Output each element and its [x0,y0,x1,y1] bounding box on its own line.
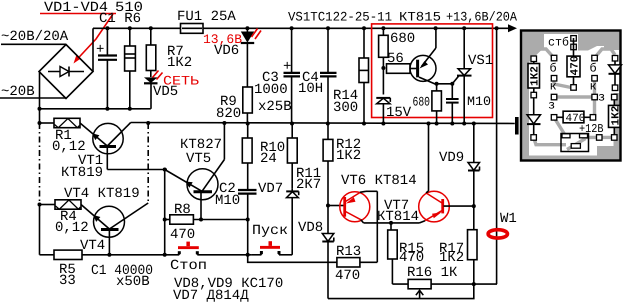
transistor VT1 [80,123,131,170]
wire Pusk node to R13 [248,255,337,262]
svg-text:470: 470 [570,56,582,76]
svg-text:33: 33 [59,273,76,289]
start button (Pusk) [252,241,292,255]
zener VD9 [468,124,480,230]
svg-text:к: к [590,80,597,94]
svg-text:680: 680 [413,95,431,110]
VT6 emitter wire down to R13 [376,191,378,262]
resistor R14 [359,28,369,123]
node dots top rail [105,26,498,30]
svg-text:х50В: х50В [116,274,150,290]
zener VD7 [286,188,299,255]
svg-text:к: к [550,80,557,94]
svg-text:1К2: 1К2 [336,148,361,164]
svg-text:з: з [598,91,605,105]
bottom sense wire [328,284,474,299]
capacitor C4 [320,28,337,123]
svg-text:2К7: 2К7 [296,177,321,193]
resistor R9 [243,87,253,124]
svg-text:КТ814: КТ814 [377,209,419,225]
svg-text:стб: стб [548,36,569,50]
label C2 M10 [215,181,240,209]
minus output rail (y123.5) [131,123,515,124]
svg-text:КТ819: КТ819 [61,165,103,181]
label R8 470 [170,202,195,243]
top rail right segment with output arrow [203,24,517,32]
resistor R7 [146,28,156,77]
svg-text:M10: M10 [467,94,491,109]
transistor VT4 [81,203,148,255]
resistor 56 [387,64,411,74]
svg-text:КТ815: КТ815 [399,10,441,25]
zener 15V [376,98,390,124]
label VT1 KT819 [61,153,103,181]
label R15 470 [399,241,424,266]
bridge rectifier VD1-VD4 [39,45,93,99]
output terminal bar [515,117,519,135]
label KT827 VT5 [180,137,222,167]
svg-text:VD6: VD6 [214,43,239,59]
svg-text:10Н: 10Н [298,81,323,97]
wire VT5 base node down [164,170,166,255]
PCB pads [531,36,618,141]
svg-text:0,12: 0,12 [55,220,89,236]
svg-text:VT4 КТ819: VT4 КТ819 [64,186,140,202]
svg-text:470: 470 [335,268,360,284]
svg-text:1К2: 1К2 [439,250,464,266]
label R12 1K2 [336,137,361,164]
svg-text:R13: R13 [336,244,361,260]
stop button (Stop) [178,242,252,255]
svg-text:24: 24 [260,151,277,167]
dash-dot line VT1..VT4 [147,123,149,203]
svg-text:820: 820 [216,106,241,122]
capacitor C2 [238,190,257,257]
svg-text:х25В: х25В [258,99,292,115]
resistor R8 [163,215,250,224]
svg-text:VD9: VD9 [439,150,464,166]
wire R12/VD8 node to VT6 base [326,204,344,208]
top rail left segment [93,27,181,29]
transistor KT815 (in red frame) [410,28,436,84]
svg-text:VD5: VD5 [153,84,178,100]
label R1 0,12 [52,128,86,155]
svg-text:Пуск: Пуск [252,223,288,239]
svg-text:VD7 Д814Д: VD7 Д814Д [173,288,249,303]
wire AC2 to bridge bottom [0,97,66,99]
svg-text:+: + [283,59,291,75]
red frame thyristor unit [372,24,493,118]
red arrow to bridge [74,14,114,64]
svg-text:15V: 15V [386,105,412,121]
label R14 300 [333,88,358,116]
wire W1 vertical [496,28,498,284]
svg-text:1000: 1000 [254,82,288,98]
emitter node wire [435,82,455,86]
resistor 680 top [379,28,389,94]
fuse FU1 [181,24,204,34]
node dots 0V rail [38,107,132,111]
thyristor VS1 [452,28,471,123]
capacitor C3 [284,28,301,123]
svg-text:680: 680 [390,31,415,47]
svg-text:C1 R6: C1 R6 [99,11,141,27]
label C4 10N [298,70,323,97]
0V rail top-left [40,108,151,110]
winding W1 (red ellipse) [488,230,507,238]
svg-text:VD8: VD8 [298,220,323,236]
svg-text:VS1ТС122-25-11: VS1ТС122-25-11 [288,10,392,25]
transistor VT6 (red) [340,191,378,223]
label R17 1K2 [439,241,464,266]
capacitor M10 [446,84,459,124]
PCB resistor 1K2 right [609,100,623,135]
resistor R11 [287,124,297,189]
svg-text:1К2: 1К2 [610,106,622,126]
svg-text:б: б [590,62,597,76]
wire bridge minus down [39,72,41,124]
transistor VT5 [165,123,225,220]
wire AC1 to bridge top [1,43,66,45]
dash-dot line x39.5 [39,123,41,205]
svg-text:б: б [550,62,557,76]
svg-text:з: з [548,99,555,113]
PCB resistor 470 top [567,38,582,85]
svg-text:300: 300 [333,100,358,116]
resistor R17 [468,230,478,284]
VT6 collector wire to VT7 [364,222,420,224]
label R5 33 [59,262,76,289]
LED VD6 [241,28,261,87]
label C3 + 1000 x25V [254,59,292,115]
PCB labels [548,36,605,137]
resistor R13 [337,258,377,267]
svg-text:VT4: VT4 [80,238,105,254]
svg-text:VT5: VT5 [186,151,211,167]
node dots on minus rail [146,121,476,126]
wire bridge plus to top rail [92,28,94,71]
zener VD8 [322,206,334,299]
wire x39.5 lower [39,205,41,255]
svg-text:1К2: 1К2 [167,55,192,71]
svg-text:+13,6В/20А: +13,6В/20А [446,10,517,25]
PCB diode left [527,98,541,135]
label R4 0,12 [55,209,89,236]
resistor R4 [38,200,82,209]
PCB resistor 470 middle [557,111,590,125]
label R10 24 [260,140,285,167]
svg-text:W1: W1 [500,211,517,227]
wire VT1 base to VT5 [107,169,167,171]
PCB transistor footprint [561,134,589,152]
resistor R1 [38,118,81,127]
svg-text:VT6 КТ814: VT6 КТ814 [341,173,417,189]
svg-text:FU1 25А: FU1 25А [177,9,236,25]
LED VD5 [144,71,163,109]
label VT7 KT814 [377,198,419,225]
svg-text:+12В: +12В [579,122,604,136]
PCB diode right top [609,61,622,85]
label VS1 TC122-25-11 KT815 +13,6V/20A [288,10,517,25]
svg-text:VD7: VD7 [258,181,283,197]
svg-text:470: 470 [170,227,195,243]
PCB resistor 1K2 left [528,62,542,93]
node dot 56 junction [381,66,385,70]
resistor R12 [323,124,333,206]
resistor R16 with wiper [392,279,497,298]
label R11 2K7 [296,166,321,193]
resistor R15 [388,223,398,284]
label C1 40000 x50V [91,263,153,290]
svg-text:Стоп: Стоп [170,258,207,274]
label R13 470 [335,244,361,284]
PCB board background [521,31,621,161]
label VD1-VD4 510 [40,0,143,16]
svg-text:R8: R8 [174,202,191,218]
resistor 680 bottom [432,84,442,124]
capacitor C1 [96,28,117,109]
svg-text:M10: M10 [215,193,240,209]
svg-text:56: 56 [387,51,404,67]
PCB traces [534,49,615,150]
svg-text:VS1: VS1 [468,53,493,69]
svg-text:1К2: 1К2 [530,66,542,86]
resistor R10 [242,124,252,191]
svg-text:~20В/20А: ~20В/20А [1,29,69,45]
svg-text:470: 470 [399,250,424,266]
resistor R6 [125,28,136,109]
transistor VT7 (red) [419,124,474,223]
bottom rail left with R5 [40,250,180,259]
